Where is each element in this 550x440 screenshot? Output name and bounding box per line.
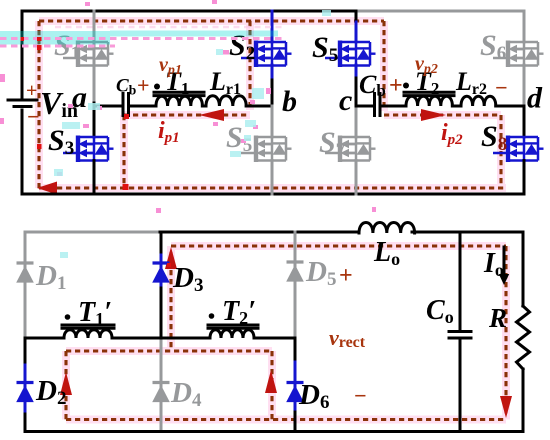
diode D5: [286, 262, 304, 282]
wire: outer loop bottom horizontal: [39, 186, 506, 189]
transformer T2' secondary: [208, 325, 258, 328]
svg-text:Lr2: Lr2: [455, 67, 487, 98]
resistor R: [517, 306, 530, 369]
wire: leg4 lower: [523, 106, 526, 137]
wire: loop1 ip1 horizontal: [124, 113, 250, 116]
svg-text:D3: D3: [172, 262, 203, 296]
node ip2 arrow: [421, 109, 446, 121]
node ip1 arrow: [199, 109, 224, 121]
transistor S6: [493, 41, 544, 68]
svg-text:T1′: T1′: [78, 297, 112, 329]
capacitor Co: [449, 332, 471, 339]
inductor Lr1: [206, 96, 246, 106]
inductor Lr2: [461, 96, 496, 106]
wire: leg3 lower gray: [355, 106, 358, 137]
wire: D6 leg lower: [294, 338, 297, 362]
svg-text:Lo: Lo: [373, 237, 400, 269]
svg-text:D1: D1: [35, 260, 66, 294]
capacitor Cb1: [123, 94, 129, 116]
node T1 dot: [154, 84, 160, 90]
wire: loop2 ip2 horizontal: [384, 113, 501, 116]
wire: outer loop top horizontal: [39, 19, 384, 22]
transformer T1' secondary: [62, 325, 114, 328]
wire: bottom rail: [22, 193, 524, 196]
wire: middle c-d rail: [356, 105, 373, 108]
wire: leg4 upper gray: [523, 11, 526, 42]
wire: rectifier top dashed run: [171, 244, 506, 247]
svg-text:−: −: [27, 104, 40, 129]
wire: left leg gray: [24, 232, 27, 338]
node arrow up at D6 loop: [265, 370, 277, 393]
wire: top rail gray: [356, 10, 524, 13]
diode D6: [286, 383, 304, 403]
wire: Co leg: [459, 232, 462, 330]
svg-text:c: c: [339, 84, 352, 117]
wire: loop1 vertical at S3: [122, 115, 125, 188]
wire: T1 to Lr1: [202, 105, 206, 108]
inductor Lo: [359, 223, 415, 234]
wire: secondary rail left: [25, 337, 64, 340]
wire: rect bottom rail: [25, 430, 523, 433]
svg-text:D4: D4: [170, 377, 202, 411]
transistor S5: [325, 41, 376, 68]
svg-text:vp1: vp1: [159, 54, 182, 78]
svg-text:ip2: ip2: [441, 120, 463, 148]
node arrow bottom-left: [37, 182, 57, 195]
svg-text:−: −: [495, 75, 508, 100]
svg-text:a: a: [72, 81, 87, 114]
svg-text:vrect: vrect: [329, 325, 366, 351]
wire: left leg lower: [24, 338, 27, 365]
svg-text:T2′: T2′: [222, 296, 256, 328]
node arrow down right drop: [500, 396, 512, 418]
svg-text:+: +: [137, 73, 150, 98]
svg-text:d: d: [527, 82, 543, 115]
svg-text:Cb: Cb: [116, 76, 136, 98]
svg-text:b: b: [282, 85, 297, 118]
svg-text:Lr1: Lr1: [209, 67, 241, 98]
wire: D5 leg gray: [294, 232, 297, 338]
capacitor Cb2: [375, 94, 381, 116]
wire: loop2 vertical at S5: [382, 21, 385, 111]
wire: leg1 lower: [93, 103, 96, 137]
wire: Lr2 to node d: [496, 105, 524, 108]
node arrow up at D3 riser: [165, 247, 177, 269]
transistor S3: [63, 136, 114, 163]
wire: Lo to right corner: [412, 232, 523, 306]
node T2' dot: [209, 313, 215, 319]
svg-text:−: −: [354, 383, 367, 408]
wire: outer loop left vertical: [37, 21, 40, 188]
wire: dashed right drop: [504, 246, 507, 414]
transistor S8: [493, 136, 544, 163]
svg-text:+: +: [339, 263, 353, 289]
diode D1: [16, 263, 34, 283]
wire: inner loop right: [270, 351, 273, 420]
wire: mid leg lower gray: [160, 338, 163, 431]
svg-text:S6: S6: [480, 29, 506, 64]
transistor S2: [241, 41, 292, 68]
svg-text:+: +: [26, 80, 37, 102]
wire: loop1 vertical at S2: [248, 21, 251, 110]
wire: leg2 upper blue: [271, 11, 274, 42]
wire: leg3 upper blue: [355, 11, 358, 23]
svg-text:R: R: [488, 303, 507, 333]
svg-text:S5: S5: [312, 31, 338, 66]
wire: dashed bottom run: [66, 418, 506, 421]
node T1' dot: [65, 314, 71, 320]
svg-text:S7: S7: [319, 126, 346, 161]
wire: rect top rail black: [160, 231, 357, 234]
transistor S4 (labelled S5, gray): [241, 136, 292, 163]
wire: loop2 vertical at S8: [499, 115, 502, 188]
svg-text:D5: D5: [305, 256, 336, 290]
svg-text:Io: Io: [483, 248, 504, 280]
svg-text:ip1: ip1: [158, 118, 180, 146]
svg-text:+: +: [389, 73, 403, 99]
wire: rect top rail gray: [25, 231, 160, 234]
wire: leg1 upper gray: [93, 11, 96, 103]
transformer T2 primary: [404, 92, 454, 95]
wire: inner loop top: [66, 349, 272, 352]
transistor S1: [63, 41, 114, 68]
wire: inner loop left: [64, 351, 67, 420]
node arrow up at D2: [60, 372, 72, 395]
node Io arrow: [503, 247, 506, 275]
wire: leg2 lower gray: [271, 106, 274, 137]
svg-text:Co: Co: [426, 295, 454, 327]
svg-text:vp2: vp2: [415, 53, 438, 77]
wire: mid leg upper: [160, 232, 163, 255]
battery Vin: [21, 11, 24, 98]
wire: middle a-b rail: [94, 105, 122, 108]
wire: Lr1 to node b: [246, 105, 272, 108]
diode D2: [16, 383, 34, 403]
diode D3: [152, 263, 170, 283]
svg-text:S3: S3: [48, 124, 74, 159]
wire: T2 to Lr2: [452, 105, 461, 108]
transistor S7: [325, 136, 376, 163]
node T2 dot: [403, 83, 409, 89]
wire: dashed riser at D3: [169, 252, 172, 351]
svg-text:D6: D6: [298, 379, 329, 413]
svg-text:D2: D2: [35, 375, 66, 409]
diode D4: [152, 383, 170, 403]
wire: top rail black: [22, 10, 357, 13]
transformer T1 primary: [154, 92, 204, 95]
